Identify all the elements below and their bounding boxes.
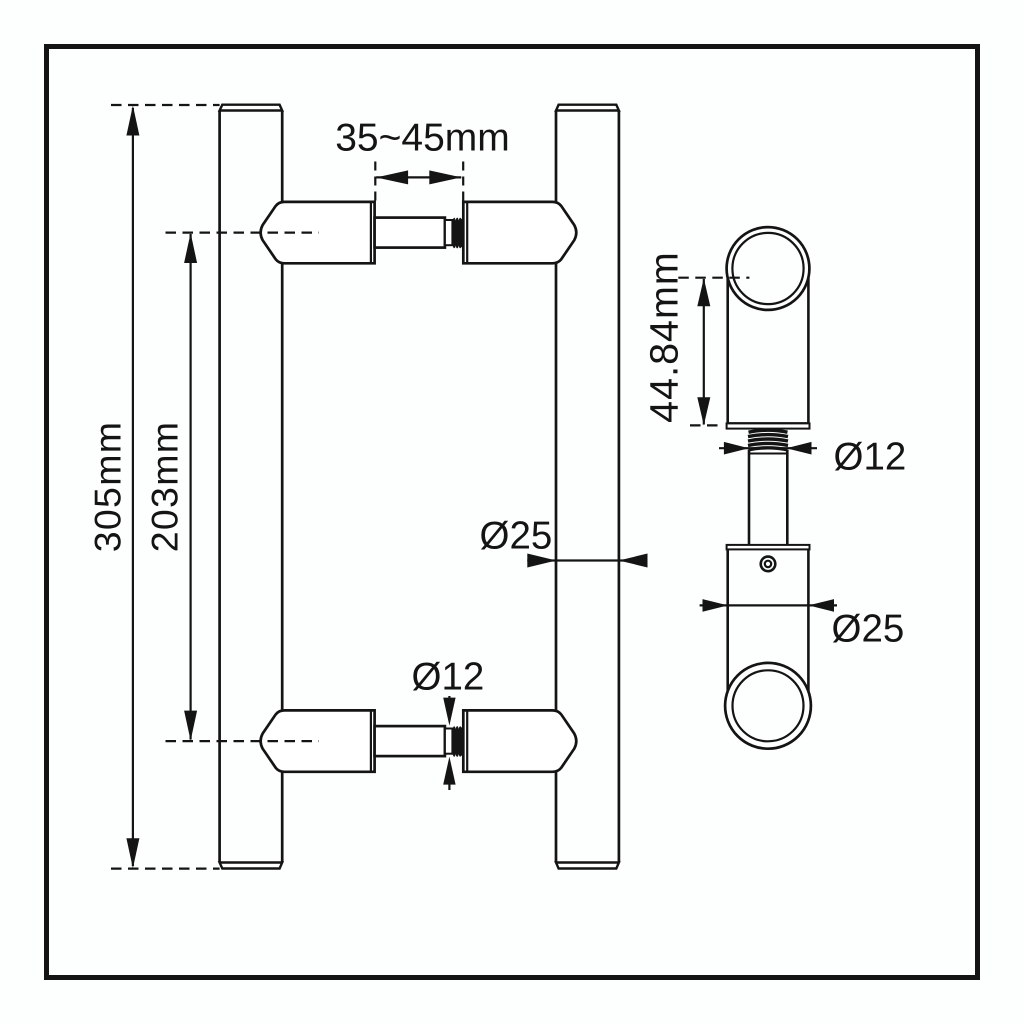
right tube top cap xyxy=(556,105,619,111)
35~45 right arrowhead xyxy=(429,170,461,184)
dashed extension line tube top xyxy=(111,104,220,106)
bottom connector assembly xyxy=(166,710,577,771)
svg-text:35~45mm: 35~45mm xyxy=(335,117,510,160)
svg-text:Ø12: Ø12 xyxy=(834,436,907,479)
top connector assembly xyxy=(166,202,577,263)
svg-text:44.84mm: 44.84mm xyxy=(643,251,687,423)
threads xyxy=(452,218,465,249)
dia12 upper arrow xyxy=(448,696,450,700)
tube cross-section circle bottom xyxy=(725,663,811,749)
left tube bottom cap xyxy=(220,863,283,869)
35~45 arrow line xyxy=(376,176,461,178)
35~45 dashed extension lines xyxy=(375,162,463,202)
connecting neck cylinder xyxy=(375,218,445,248)
connector centerline (dashed) xyxy=(166,231,319,233)
203mm top arrowhead xyxy=(184,233,197,263)
44.84 bottom arrowhead xyxy=(697,397,710,425)
right fitting cap line xyxy=(466,203,468,263)
dia25 dimension line through right tube xyxy=(527,559,647,561)
44.84 top arrowhead xyxy=(697,278,710,306)
dia12 arrows (detail) xyxy=(719,447,817,449)
dimension 44.84mm line xyxy=(703,279,705,425)
right bullet fitting xyxy=(463,202,576,263)
left fitting end-cap line xyxy=(370,203,372,263)
35~45 left arrowhead xyxy=(376,170,408,184)
svg-text:203mm: 203mm xyxy=(144,421,186,553)
svg-text:Ø12: Ø12 xyxy=(412,656,485,699)
dia12 lower arrow xyxy=(443,757,455,785)
upper washer flange xyxy=(727,423,810,428)
dimension 305mm line xyxy=(132,108,134,866)
neck step ring xyxy=(445,220,453,245)
standoff lower body xyxy=(728,549,809,691)
left tube body xyxy=(220,111,283,863)
svg-text:Ø25: Ø25 xyxy=(832,608,905,651)
dia12 detail left arrowhead xyxy=(724,442,749,455)
dia25 dimension line (detail) xyxy=(700,604,837,606)
right tube body xyxy=(556,111,619,863)
dia12 detail right arrowhead xyxy=(786,442,811,455)
dashed line detail top xyxy=(678,277,749,279)
standoff upper body xyxy=(728,278,809,423)
right tube bottom cap xyxy=(556,863,619,869)
svg-text:Ø25: Ø25 xyxy=(480,515,553,558)
grub screw hole xyxy=(761,557,776,572)
dia25 detail left arrowhead xyxy=(703,599,728,612)
dashed extension line tube bottom xyxy=(111,867,220,869)
203mm bottom arrowhead xyxy=(184,711,197,741)
dia25 left arrowhead xyxy=(527,554,556,568)
dimension 203mm line xyxy=(190,234,192,740)
left tube top cap xyxy=(220,105,283,111)
305mm top arrowhead xyxy=(126,106,139,136)
dia25 detail right arrowhead xyxy=(809,599,835,612)
dashed line detail bottom xyxy=(690,424,722,426)
left bullet fitting xyxy=(261,202,375,263)
threads (detail) xyxy=(748,430,788,450)
tube cross-section circle top xyxy=(727,227,810,310)
dia25 right arrowhead xyxy=(619,554,648,568)
shaft (dia12) xyxy=(749,450,787,545)
svg-text:305mm: 305mm xyxy=(87,421,129,553)
lower washer flange xyxy=(727,545,810,550)
305mm bottom arrowhead xyxy=(126,838,139,868)
